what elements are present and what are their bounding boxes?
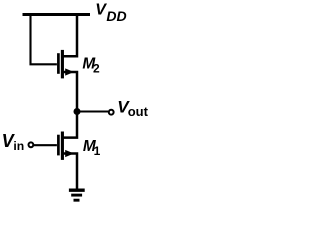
wire input terminal to M1 gate bbox=[34, 144, 57, 146]
svg-text:2: 2 bbox=[93, 61, 100, 75]
transistor M2 channel bar bbox=[61, 50, 64, 79]
wire M1 drain to output node bbox=[64, 110, 78, 138]
ground bbox=[69, 188, 85, 191]
wire M2 source to output node bbox=[64, 72, 78, 112]
output terminal circle bbox=[109, 110, 114, 115]
node output junction bbox=[74, 108, 81, 115]
svg-text:V: V bbox=[95, 2, 107, 19]
transistor M1 channel bar bbox=[61, 132, 64, 160]
M1 source arrow bbox=[65, 150, 74, 157]
wire M2 drain to VDD bbox=[64, 14, 78, 56]
svg-text:DD: DD bbox=[106, 8, 126, 24]
svg-text:1: 1 bbox=[94, 144, 101, 158]
svg-text:out: out bbox=[128, 104, 149, 119]
wire M1 source to ground bbox=[64, 154, 78, 189]
transistor M2 gate bar bbox=[57, 53, 60, 74]
wire gate-of-M2 to VDD bbox=[31, 15, 57, 64]
M2 source arrow bbox=[65, 68, 74, 75]
wire output node to terminal bbox=[77, 111, 108, 113]
transistor M1 gate bar bbox=[57, 135, 60, 156]
VDD rail bbox=[23, 13, 91, 16]
input terminal circle bbox=[29, 142, 34, 147]
svg-text:in: in bbox=[13, 139, 24, 153]
